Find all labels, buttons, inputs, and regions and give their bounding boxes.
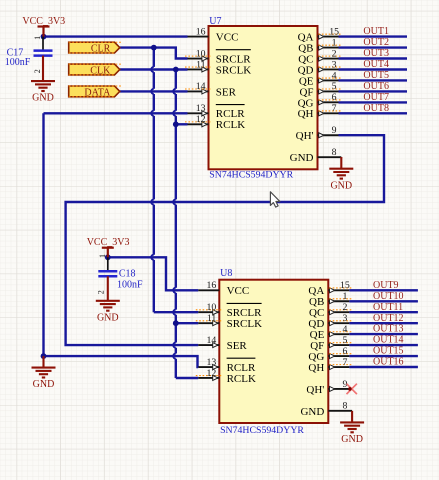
svg-text:VCC: VCC (227, 285, 250, 297)
ground GND at U8 pin8 (340, 411, 364, 445)
net label OUT10 (373, 291, 404, 302)
svg-text:GND: GND (330, 180, 352, 191)
wire QH-prime cascade U7 pin9 to U8 pin14 (66, 135, 384, 345)
net label OUT8 (363, 103, 389, 114)
svg-text:OUT15: OUT15 (373, 346, 404, 357)
svg-text:OUT6: OUT6 (363, 81, 389, 92)
net label OUT5 (363, 70, 389, 81)
svg-text:5: 5 (342, 335, 347, 346)
designator U7 (209, 16, 221, 27)
svg-text:SRCLK: SRCLK (216, 64, 252, 76)
U8 pin 3 QD (308, 313, 352, 330)
svg-text:OUT12: OUT12 (373, 313, 404, 324)
net label OUT3 (363, 48, 389, 59)
svg-text:15: 15 (329, 26, 339, 37)
svg-text:1: 1 (33, 36, 42, 40)
U7 pin 12 RCLK (185, 114, 245, 131)
svg-text:2: 2 (332, 48, 337, 59)
U7 pin 2 QC (298, 48, 342, 65)
U8 pin 5 QF (310, 335, 353, 352)
wire net OUT16 (349, 366, 418, 368)
svg-text:VCC_3V3: VCC_3V3 (87, 237, 130, 248)
net label OUT2 (363, 37, 389, 48)
svg-text:3: 3 (342, 313, 347, 324)
svg-text:OUT16: OUT16 (373, 357, 404, 368)
node CLK branch junction (173, 67, 179, 73)
wire CLR port to U7 pin10 with jog (120, 48, 188, 59)
wire net OUT11 (349, 311, 418, 313)
pin number 2 of C17 (33, 69, 42, 73)
svg-text:9: 9 (332, 125, 337, 136)
pin number 1 of C18 (98, 254, 107, 258)
svg-text:14: 14 (207, 335, 217, 346)
power VCC_3V3 (bottom) (87, 237, 130, 257)
net label OUT4 (363, 59, 389, 70)
node RCLK U7 junction (173, 121, 179, 127)
wire U8 pin11 from CLK vertical (176, 322, 199, 324)
svg-text:2: 2 (96, 290, 105, 294)
designator U8 (220, 268, 232, 279)
net label OUT13 (373, 324, 404, 335)
svg-text:GND: GND (300, 406, 324, 418)
svg-text:OUT5: OUT5 (363, 70, 389, 81)
svg-text:SN74HCS594DYYR: SN74HCS594DYYR (220, 425, 304, 436)
U8 pin 1 QB (309, 291, 353, 308)
svg-text:DATA: DATA (84, 88, 111, 99)
svg-text:11: 11 (207, 313, 217, 324)
wire net OUT13 (349, 333, 418, 335)
svg-text:RCLK: RCLK (227, 373, 256, 385)
U7 pin 6 QG (298, 92, 342, 109)
capacitor C17 100nF (5, 37, 53, 68)
net label OUT6 (363, 81, 389, 92)
port CLK (69, 64, 122, 77)
mouse cursor (270, 192, 280, 207)
U7 pin 14 SER (185, 81, 237, 98)
svg-text:6: 6 (342, 346, 347, 357)
net label OUT7 (363, 92, 389, 103)
U8 pin 14 SER (198, 335, 247, 352)
svg-text:GND: GND (32, 93, 54, 104)
svg-text:14: 14 (196, 81, 206, 92)
node CLR branch junction (151, 45, 157, 51)
ground GND below C18 (96, 276, 120, 323)
svg-text:5: 5 (332, 81, 337, 92)
ground GND bottom-left on RCLR net (32, 356, 56, 390)
svg-text:3: 3 (332, 59, 337, 70)
svg-text:GND: GND (341, 434, 363, 445)
wire DATA port to U7 pin14 (120, 90, 188, 92)
svg-text:SRCLK: SRCLK (227, 318, 263, 330)
U8 pin 6 QG (308, 346, 352, 363)
U7 pin 10 SRCLR (185, 48, 251, 65)
ground GND at U7 pin8 (329, 157, 353, 191)
svg-text:12: 12 (196, 114, 206, 125)
svg-text:C18: C18 (119, 268, 136, 279)
svg-text:2: 2 (342, 302, 347, 313)
svg-text:SN74HCS594DYYR: SN74HCS594DYYR (209, 169, 293, 180)
svg-text:1: 1 (98, 254, 107, 258)
svg-text:OUT2: OUT2 (363, 37, 389, 48)
svg-text:8: 8 (332, 147, 337, 158)
svg-text:13: 13 (207, 357, 217, 368)
wire net OUT14 (349, 344, 418, 346)
U8 pin 8 GND (300, 401, 352, 418)
svg-text:QH': QH' (306, 384, 324, 396)
U8 pin 12 RCLK (196, 368, 256, 385)
wire net OUT6 (339, 90, 408, 92)
U8 pin 9 QH-prime (306, 379, 349, 396)
U7 pin 11 SRCLK (185, 59, 251, 76)
U7 pin 7 QH (298, 103, 342, 120)
net label OUT9 (373, 280, 399, 291)
U7 pin 16 VCC (188, 26, 239, 43)
U7 pin 15 QA (298, 26, 342, 43)
U8 pin 16 VCC (198, 280, 249, 297)
net label OUT12 (373, 313, 404, 324)
U8 pin 13 RCLR (198, 357, 256, 374)
wire net OUT1 (339, 35, 408, 37)
wire RCLR vertical + to U8 pin13 with jog (44, 113, 199, 367)
U8 pin 7 QH (308, 357, 352, 374)
capacitor C18 100nF (98, 257, 143, 290)
svg-text:4: 4 (342, 324, 347, 335)
node VCC U7 junction (41, 34, 47, 40)
U7 pin 8 GND (290, 147, 342, 164)
svg-text:OUT10: OUT10 (373, 291, 404, 302)
wire net OUT12 (349, 322, 418, 324)
svg-text:GND: GND (290, 152, 314, 164)
power VCC_3V3 (top) (22, 16, 65, 37)
wire RCLK U7 pin12 from CLK vertical (176, 123, 188, 125)
svg-text:OUT3: OUT3 (363, 48, 389, 59)
svg-text:16: 16 (207, 280, 217, 291)
part number label U8 (220, 425, 304, 436)
svg-text:OUT14: OUT14 (373, 335, 404, 346)
wire VCC_3V3 to U7 pin16 (44, 35, 188, 37)
svg-text:13: 13 (196, 103, 206, 114)
svg-text:10: 10 (207, 302, 217, 313)
svg-text:15: 15 (340, 280, 350, 291)
svg-text:7: 7 (342, 357, 347, 368)
U7 pin 4 QE (299, 70, 342, 87)
net label OUT14 (373, 335, 404, 346)
U7 pin 9 QH-prime (296, 125, 339, 142)
svg-text:16: 16 (196, 26, 206, 37)
U7 pin 5 QF (299, 81, 342, 98)
op IC U7 body SN74HCS594DYYR (209, 26, 318, 169)
svg-text:2: 2 (33, 69, 42, 73)
U8 pin 10 SRCLR (196, 302, 262, 319)
part number label U7 (209, 169, 293, 180)
svg-text:GND: GND (97, 312, 119, 323)
U7 pin 1 QB (298, 37, 342, 54)
svg-text:10: 10 (196, 48, 206, 59)
wire CLK vertical bus to U8 pin12 (173, 70, 198, 379)
U7 pin 13 RCLR (188, 103, 246, 120)
svg-text:1: 1 (332, 37, 337, 48)
svg-text:7: 7 (332, 103, 337, 114)
svg-text:11: 11 (196, 59, 206, 70)
node VCC U8 junction (105, 254, 111, 260)
wire net OUT5 (339, 79, 408, 81)
U7 pin 3 QD (298, 59, 342, 76)
svg-text:VCC: VCC (216, 31, 239, 43)
no-connect X at U8 pin9 (347, 384, 357, 394)
svg-text:CLR: CLR (91, 44, 111, 55)
net label OUT16 (373, 357, 404, 368)
wire RCLR net horizontal to U7 pin13 (44, 112, 188, 114)
wire net OUT2 (339, 46, 408, 48)
svg-text:CLK: CLK (90, 66, 111, 77)
svg-text:QH': QH' (296, 130, 314, 142)
node RCLR-GND junction (41, 353, 47, 359)
svg-text:SER: SER (216, 86, 237, 98)
wire net OUT15 (349, 355, 418, 357)
svg-text:OUT7: OUT7 (363, 92, 389, 103)
svg-text:QH: QH (308, 362, 324, 374)
U8 pin 2 QC (309, 302, 353, 319)
net label OUT11 (373, 302, 403, 313)
net label OUT15 (373, 346, 404, 357)
wire CLK port to U7 pin11 (120, 68, 188, 70)
svg-text:VCC_3V3: VCC_3V3 (22, 16, 65, 27)
svg-text:1: 1 (342, 291, 347, 302)
wire net OUT10 (349, 300, 418, 302)
port DATA (69, 86, 122, 99)
svg-text:OUT1: OUT1 (363, 26, 389, 37)
svg-text:12: 12 (207, 368, 217, 379)
wire net OUT4 (339, 68, 408, 70)
port CLR (69, 42, 122, 55)
svg-text:OUT11: OUT11 (373, 302, 403, 313)
U8 pin 11 SRCLK (196, 313, 262, 330)
svg-text:U8: U8 (220, 268, 232, 279)
wire CLR vertical bus to U8 pin10 (151, 48, 198, 313)
svg-text:GND: GND (33, 379, 55, 390)
svg-text:SER: SER (227, 340, 248, 352)
U8 pin 15 QA (308, 280, 352, 297)
svg-text:U7: U7 (209, 16, 221, 27)
svg-text:QH: QH (298, 108, 314, 120)
svg-text:100nF: 100nF (117, 279, 143, 290)
wire net OUT3 (339, 57, 408, 59)
svg-text:RCLK: RCLK (216, 119, 245, 131)
svg-text:6: 6 (332, 92, 337, 103)
svg-text:OUT9: OUT9 (373, 280, 399, 291)
svg-text:OUT8: OUT8 (363, 103, 389, 114)
ground GND below C17 (31, 56, 55, 104)
svg-text:OUT4: OUT4 (363, 59, 389, 70)
pin number 1 of C17 (33, 36, 42, 40)
U8 pin 4 QE (310, 324, 353, 341)
pin number 2 of C18 (96, 290, 105, 294)
wire net OUT8 (339, 112, 408, 114)
wire VCC_3V3 to U8 pin16 (108, 257, 199, 290)
svg-text:4: 4 (332, 70, 337, 81)
node SRCLK U8 junction (173, 320, 179, 326)
op IC U8 body SN74HCS594DYYR (219, 280, 328, 423)
svg-text:8: 8 (342, 401, 347, 412)
svg-text:100nF: 100nF (5, 57, 31, 68)
wire net OUT9 (349, 289, 418, 291)
net label OUT1 (363, 26, 389, 37)
wire net OUT7 (339, 101, 408, 103)
svg-text:OUT13: OUT13 (373, 324, 404, 335)
